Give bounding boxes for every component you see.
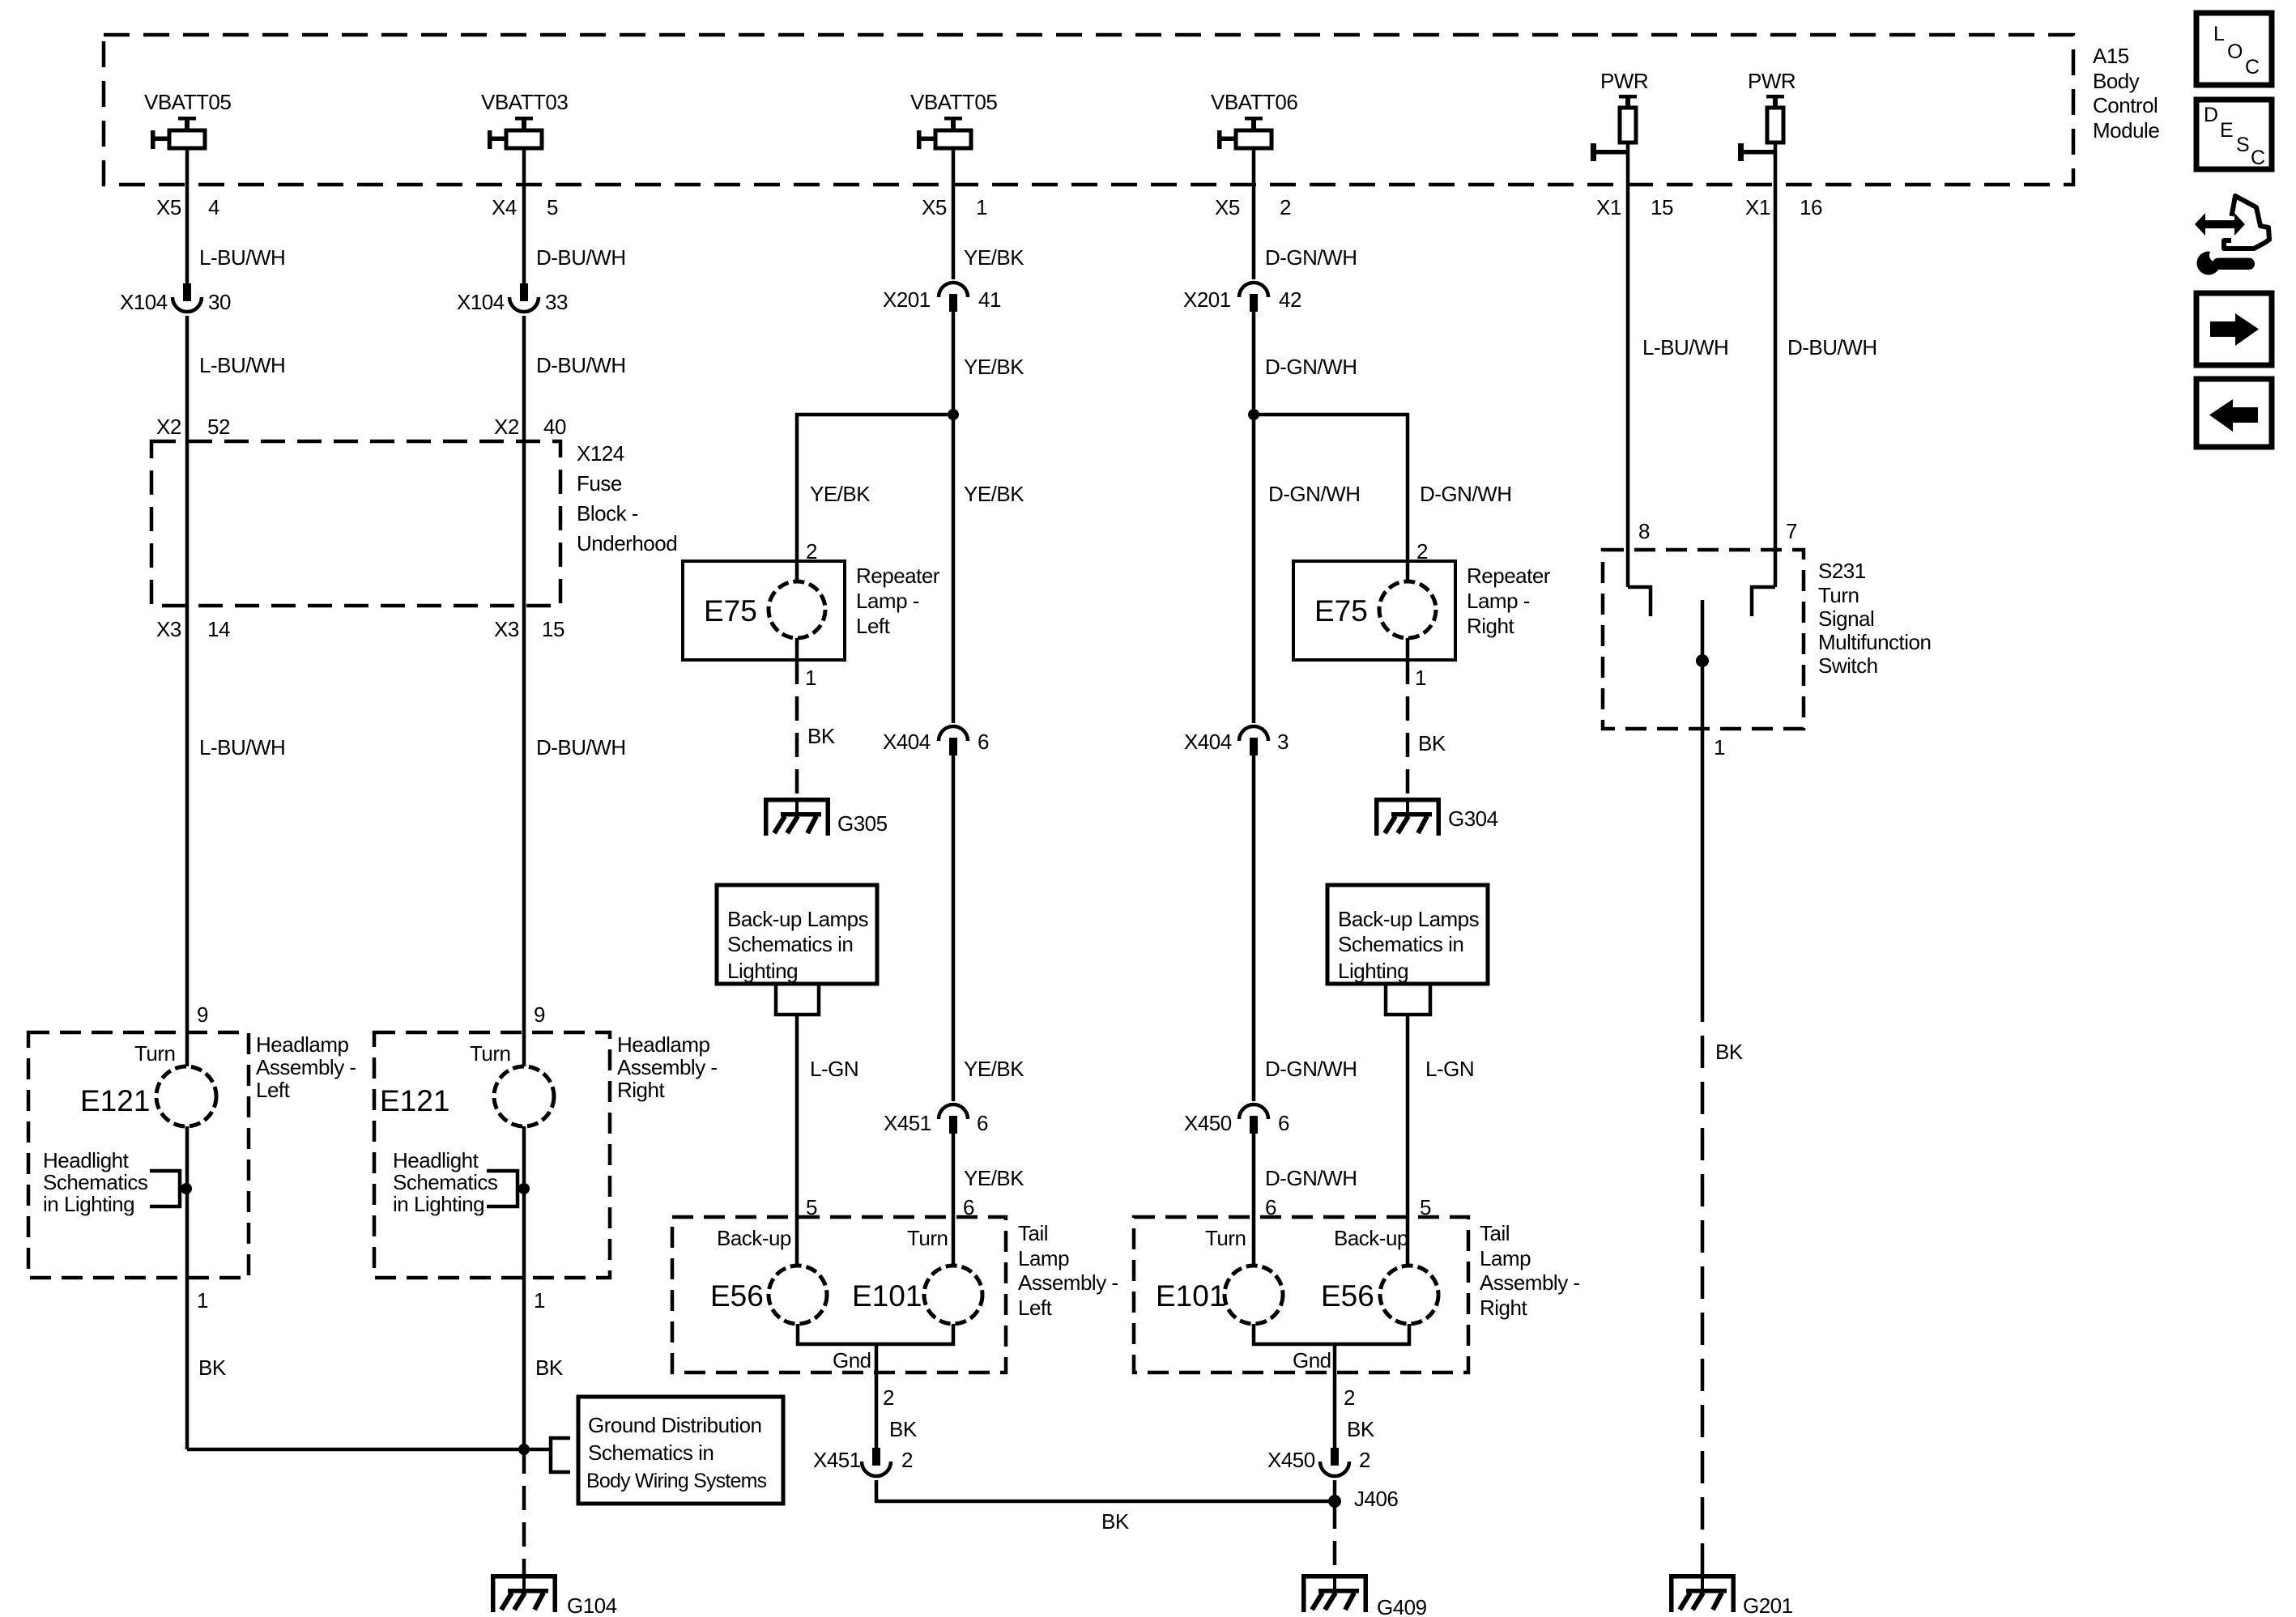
fuse VBATT03 xyxy=(481,90,568,149)
svg-text:G201: G201 xyxy=(1743,1594,1793,1617)
wire col2 X3 to E121 right xyxy=(522,606,526,1066)
svg-text:Underhood: Underhood xyxy=(577,531,677,555)
svg-text:Lighting: Lighting xyxy=(1338,959,1408,983)
wire col4 X404 to X450 xyxy=(1252,755,1256,1101)
svg-text:X104: X104 xyxy=(120,290,168,314)
svg-text:Right: Right xyxy=(1480,1296,1527,1320)
svg-text:YE/BK: YE/BK xyxy=(964,1166,1024,1190)
svg-text:Headlamp: Headlamp xyxy=(617,1032,710,1057)
svg-text:J406: J406 xyxy=(1354,1487,1398,1511)
wire col1 X104 to X2 xyxy=(185,316,190,441)
svg-text:D-BU/WH: D-BU/WH xyxy=(536,353,626,377)
svg-text:Switch: Switch xyxy=(1818,653,1878,678)
svg-text:4: 4 xyxy=(208,195,219,219)
svg-text:Body: Body xyxy=(2093,69,2140,93)
svg-text:Fuse: Fuse xyxy=(577,471,622,496)
svg-text:D: D xyxy=(2204,104,2218,126)
lamp E56 left (dashed circle) xyxy=(710,1266,827,1324)
svg-text:X450: X450 xyxy=(1184,1111,1232,1135)
svg-text:YE/BK: YE/BK xyxy=(964,355,1024,379)
svg-text:Back-up: Back-up xyxy=(1334,1226,1408,1250)
svg-text:YE/BK: YE/BK xyxy=(810,482,871,506)
svg-text:5: 5 xyxy=(547,195,558,219)
wire gnd join (right tail lamp) xyxy=(1254,1324,1409,1344)
fuse block X124 (dashed box) xyxy=(151,441,560,606)
wire col2 through E121 right xyxy=(522,1126,526,1449)
svg-text:G305: G305 xyxy=(837,811,888,836)
svg-text:E101: E101 xyxy=(852,1279,922,1313)
svg-text:D-GN/WH: D-GN/WH xyxy=(1268,482,1360,506)
svg-text:9: 9 xyxy=(534,1002,545,1027)
wire col3 fuse to X201 xyxy=(952,148,956,279)
wire left gnd to BK run xyxy=(876,1480,1335,1501)
icon arrow left box xyxy=(2196,379,2272,447)
svg-text:Control: Control xyxy=(2093,93,2158,117)
svg-text:X5: X5 xyxy=(156,195,181,219)
svg-text:41: 41 xyxy=(978,287,1001,312)
svg-text:X5: X5 xyxy=(922,195,947,219)
svg-text:BK: BK xyxy=(1101,1509,1130,1534)
svg-text:X124: X124 xyxy=(577,441,624,466)
wire col3 X201 to junction xyxy=(952,312,956,415)
svg-text:Lighting: Lighting xyxy=(727,959,798,983)
svg-text:X451: X451 xyxy=(813,1448,861,1472)
svg-text:L-BU/WH: L-BU/WH xyxy=(199,245,285,270)
svg-text:E56: E56 xyxy=(1321,1279,1374,1313)
svg-text:E101: E101 xyxy=(1156,1279,1225,1313)
svg-text:30: 30 xyxy=(208,290,231,314)
wire BK horizontal joining col2 xyxy=(187,1448,549,1452)
fuse VBATT05 (center) xyxy=(910,90,997,149)
box Back-up Lamps Schematics in Lighting (left) xyxy=(717,885,877,984)
svg-text:Left: Left xyxy=(856,614,891,638)
ground G305 xyxy=(764,798,888,836)
lamp E101 left (dashed circle) xyxy=(852,1266,982,1324)
wire col4 junction to X404 xyxy=(1252,415,1256,723)
svg-text:Repeater: Repeater xyxy=(856,564,940,588)
wire X450 to J406 xyxy=(1333,1480,1337,1501)
bracket below back-up lamps box (right) xyxy=(1386,985,1430,1015)
svg-text:PWR: PWR xyxy=(1748,69,1795,93)
node headlight tap (right) xyxy=(518,1183,530,1194)
icon vehicle with arrow xyxy=(2195,196,2269,249)
wire col4 fuse to X201 xyxy=(1252,148,1256,279)
svg-text:Schematics: Schematics xyxy=(393,1170,498,1194)
svg-text:Module: Module xyxy=(2093,118,2159,143)
wire L-GN branch to E56 left xyxy=(795,1015,799,1266)
label Tail Lamp Assembly - Left xyxy=(1018,1221,1118,1320)
svg-text:X4: X4 xyxy=(492,195,517,219)
svg-text:Back-up: Back-up xyxy=(717,1226,791,1250)
svg-text:X5: X5 xyxy=(1215,195,1240,219)
box Ground Distribution Schematics in Body Wiring Systems xyxy=(578,1397,783,1504)
svg-text:E75: E75 xyxy=(704,594,757,628)
svg-text:L-GN: L-GN xyxy=(1425,1057,1474,1081)
component Tail Lamp Assembly - Right (dashed box) xyxy=(1134,1217,1468,1372)
svg-text:Turn: Turn xyxy=(134,1041,176,1066)
svg-text:Schematics in: Schematics in xyxy=(1338,932,1463,956)
svg-text:X1: X1 xyxy=(1745,195,1770,219)
pin X4 5 xyxy=(492,195,558,219)
bracket to headlight schematics (left) xyxy=(150,1171,186,1206)
svg-text:in Lighting: in Lighting xyxy=(43,1192,134,1216)
wire BK dashed S231 to G201 xyxy=(1701,989,1705,1574)
svg-text:7: 7 xyxy=(1786,519,1797,543)
svg-text:Repeater: Repeater xyxy=(1467,564,1551,588)
wire col1 X3 to E121 left xyxy=(185,606,190,1066)
component E75 Repeater Lamp - Left (box) xyxy=(683,561,845,660)
svg-text:1: 1 xyxy=(1714,735,1725,760)
svg-text:Left: Left xyxy=(1018,1296,1053,1320)
connector X451 2 xyxy=(813,1448,913,1476)
wire col1 through fuse block xyxy=(185,441,190,606)
svg-text:Schematics: Schematics xyxy=(43,1170,148,1194)
svg-text:1: 1 xyxy=(976,195,987,219)
svg-text:YE/BK: YE/BK xyxy=(964,245,1024,270)
svg-text:L-BU/WH: L-BU/WH xyxy=(199,353,285,377)
svg-text:BK: BK xyxy=(1418,731,1446,755)
svg-text:X201: X201 xyxy=(1183,287,1231,312)
wire col2 through fuse block xyxy=(522,441,526,606)
svg-text:X404: X404 xyxy=(1184,730,1232,754)
connector X104 30 xyxy=(120,283,231,314)
lamp E101 right (dashed circle) xyxy=(1156,1266,1283,1324)
svg-text:Assembly -: Assembly - xyxy=(256,1055,356,1079)
svg-text:E56: E56 xyxy=(710,1279,764,1313)
svg-text:G104: G104 xyxy=(567,1594,617,1617)
svg-text:Lamp -: Lamp - xyxy=(856,589,919,613)
svg-text:2: 2 xyxy=(1280,195,1291,219)
wire col3 X404 to X451 xyxy=(952,755,956,1101)
wire L-GN branch to E56 right xyxy=(1406,1015,1410,1266)
fuse VBATT06 xyxy=(1211,90,1297,149)
svg-text:9: 9 xyxy=(197,1002,208,1027)
svg-text:Headlamp: Headlamp xyxy=(256,1032,349,1057)
wire col2 fuse to X104 xyxy=(522,148,526,283)
svg-text:Back-up Lamps: Back-up Lamps xyxy=(727,907,869,931)
pin X1 16 xyxy=(1745,195,1822,219)
svg-text:Right: Right xyxy=(617,1078,665,1102)
svg-text:16: 16 xyxy=(1800,195,1822,219)
component E121 Headlamp Assembly - Left (dashed box) xyxy=(28,1032,249,1278)
svg-text:Lamp: Lamp xyxy=(1018,1246,1069,1270)
connector X451 6 xyxy=(884,1104,988,1135)
label Headlight Schematics in Lighting (left) xyxy=(43,1148,148,1216)
pin X5 1 xyxy=(922,195,987,219)
svg-text:C: C xyxy=(2245,56,2260,79)
lamp E75 right (dashed circle) xyxy=(1314,561,1436,660)
node ground junction left xyxy=(518,1444,530,1455)
pin X3 15 xyxy=(494,617,564,641)
node headlight tap (left) xyxy=(181,1183,192,1194)
pin X2 40 xyxy=(494,415,566,439)
svg-text:D-GN/WH: D-GN/WH xyxy=(1265,1057,1357,1081)
svg-text:D-GN/WH: D-GN/WH xyxy=(1265,355,1357,379)
node J406 xyxy=(1328,1487,1398,1511)
svg-text:YE/BK: YE/BK xyxy=(964,482,1024,506)
icon DESC box xyxy=(2196,100,2272,169)
svg-text:S231: S231 xyxy=(1818,559,1866,583)
fuse PWR (left) xyxy=(1591,69,1648,161)
svg-text:G409: G409 xyxy=(1377,1595,1427,1617)
wire col2 X104 to X2 xyxy=(522,316,526,441)
svg-text:Tail: Tail xyxy=(1480,1221,1510,1245)
label Headlamp Assembly - Left xyxy=(256,1032,356,1102)
connector X450 2 xyxy=(1267,1448,1370,1476)
svg-text:Assembly -: Assembly - xyxy=(1018,1270,1118,1295)
svg-text:1: 1 xyxy=(534,1288,545,1313)
svg-text:2: 2 xyxy=(883,1385,894,1410)
svg-text:Gnd: Gnd xyxy=(1293,1348,1331,1372)
svg-text:Ground Distribution: Ground Distribution xyxy=(588,1413,762,1437)
svg-text:6: 6 xyxy=(977,1111,988,1135)
svg-text:L-BU/WH: L-BU/WH xyxy=(1642,335,1728,360)
svg-text:D-BU/WH: D-BU/WH xyxy=(536,735,626,760)
svg-text:1: 1 xyxy=(805,666,816,690)
connector X404 6 xyxy=(883,726,989,755)
svg-text:S: S xyxy=(2236,134,2250,156)
svg-text:BK: BK xyxy=(807,724,836,748)
wire col4 X450 to tail lamp xyxy=(1252,1134,1256,1266)
pin X2 52 xyxy=(156,415,230,439)
svg-text:1: 1 xyxy=(1415,666,1426,690)
svg-text:VBATT03: VBATT03 xyxy=(481,90,568,114)
svg-text:O: O xyxy=(2227,40,2243,63)
svg-text:X2: X2 xyxy=(156,415,181,439)
component S231 Turn Signal Multifunction Switch (dashed box) xyxy=(1603,550,1804,729)
bracket below back-up lamps box (left) xyxy=(776,985,819,1015)
svg-text:Tail: Tail xyxy=(1018,1221,1048,1245)
switch contact pin 8 xyxy=(1628,587,1651,616)
svg-text:Lamp -: Lamp - xyxy=(1467,589,1530,613)
wire col3 X451 to tail lamp xyxy=(952,1134,956,1266)
wire col1 fuse to X104 xyxy=(185,148,190,283)
svg-text:Left: Left xyxy=(256,1078,291,1102)
label A15 Body Control Module xyxy=(2093,44,2159,143)
connector X201 41 xyxy=(883,283,1001,312)
svg-text:Turn: Turn xyxy=(1205,1226,1246,1250)
switch contact pin 7 xyxy=(1752,587,1775,616)
svg-text:BK: BK xyxy=(889,1417,918,1441)
label Repeater Lamp - Left xyxy=(856,564,940,638)
bracket to headlight schematics (right) xyxy=(487,1171,524,1206)
svg-text:X2: X2 xyxy=(494,415,519,439)
svg-text:Assembly -: Assembly - xyxy=(617,1055,718,1079)
wire BK dashed E75 left to G305 xyxy=(795,660,799,798)
svg-text:Right: Right xyxy=(1467,614,1514,638)
icon arrow right box xyxy=(2196,293,2272,365)
svg-text:Back-up Lamps: Back-up Lamps xyxy=(1338,907,1480,931)
svg-text:X1: X1 xyxy=(1596,195,1621,219)
label Tail Lamp Assembly - Right xyxy=(1480,1221,1580,1320)
svg-text:2: 2 xyxy=(901,1448,913,1472)
svg-text:15: 15 xyxy=(542,617,564,641)
svg-text:6: 6 xyxy=(1278,1111,1289,1135)
svg-text:X3: X3 xyxy=(494,617,519,641)
wire col6 fuse to S231 pin 7 xyxy=(1774,143,1778,587)
svg-text:Turn: Turn xyxy=(907,1226,948,1250)
svg-text:D-GN/WH: D-GN/WH xyxy=(1265,1166,1357,1190)
svg-text:6: 6 xyxy=(978,730,989,754)
svg-text:Assembly -: Assembly - xyxy=(1480,1270,1580,1295)
pin X3 14 xyxy=(156,617,230,641)
svg-text:40: 40 xyxy=(543,415,566,439)
svg-text:E: E xyxy=(2220,119,2234,142)
svg-text:8: 8 xyxy=(1638,519,1650,543)
svg-text:L-BU/WH: L-BU/WH xyxy=(199,735,285,760)
wire branch to repeater lamp right xyxy=(1254,415,1408,561)
lamp E56 right (dashed circle) xyxy=(1321,1266,1438,1324)
connector X201 42 xyxy=(1183,283,1301,312)
wire gnd down (right tail lamp) xyxy=(1333,1344,1337,1448)
svg-text:X201: X201 xyxy=(883,287,931,312)
bracket to ground distribution box xyxy=(551,1438,570,1472)
svg-text:33: 33 xyxy=(545,290,568,314)
svg-text:Signal: Signal xyxy=(1818,606,1874,631)
svg-text:X450: X450 xyxy=(1267,1448,1315,1472)
svg-text:L: L xyxy=(2213,23,2225,45)
svg-text:Turn: Turn xyxy=(1818,583,1859,607)
svg-text:15: 15 xyxy=(1651,195,1673,219)
svg-text:BK: BK xyxy=(535,1355,564,1380)
svg-text:2: 2 xyxy=(1344,1385,1355,1410)
label Repeater Lamp - Right xyxy=(1467,564,1551,638)
svg-text:Gnd: Gnd xyxy=(833,1348,871,1372)
wire gnd down (left tail lamp) xyxy=(875,1344,879,1448)
pin X1 15 xyxy=(1596,195,1673,219)
svg-text:VBATT05: VBATT05 xyxy=(910,90,997,114)
svg-text:Body Wiring Systems: Body Wiring Systems xyxy=(586,1470,767,1492)
svg-text:D-BU/WH: D-BU/WH xyxy=(1787,335,1877,360)
label S231 Turn Signal Multifunction Switch xyxy=(1818,559,1931,678)
label X124 Fuse Block - Underhood xyxy=(577,441,677,555)
lamp E121 right (dashed circle) xyxy=(380,1066,554,1126)
wire col4 X201 to junction xyxy=(1252,312,1256,415)
svg-text:BK: BK xyxy=(198,1355,227,1380)
icon wrench xyxy=(2197,248,2256,275)
component E121 Headlamp Assembly - Right (dashed box) xyxy=(374,1032,610,1278)
svg-text:VBATT06: VBATT06 xyxy=(1211,90,1297,114)
svg-text:E75: E75 xyxy=(1314,594,1368,628)
box Back-up Lamps Schematics in Lighting (right) xyxy=(1327,885,1488,984)
svg-text:in Lighting: in Lighting xyxy=(393,1192,484,1216)
svg-text:YE/BK: YE/BK xyxy=(964,1057,1024,1081)
svg-text:E121: E121 xyxy=(80,1084,150,1117)
lamp E121 left (dashed circle) xyxy=(80,1066,216,1126)
svg-text:X404: X404 xyxy=(883,730,931,754)
pin X5 2 xyxy=(1215,195,1291,219)
svg-text:X451: X451 xyxy=(884,1111,931,1135)
svg-text:Block -: Block - xyxy=(577,501,638,526)
fuse PWR (right) xyxy=(1738,69,1795,161)
svg-text:L-GN: L-GN xyxy=(810,1057,858,1081)
svg-text:Headlight: Headlight xyxy=(393,1148,479,1172)
svg-text:D-GN/WH: D-GN/WH xyxy=(1265,245,1357,270)
svg-text:Schematics in: Schematics in xyxy=(588,1440,714,1465)
svg-text:Schematics in: Schematics in xyxy=(727,932,853,956)
pin X5 4 xyxy=(156,195,219,219)
component Tail Lamp Assembly - Left (dashed box) xyxy=(672,1217,1006,1372)
svg-text:E121: E121 xyxy=(380,1084,449,1117)
svg-text:D-BU/WH: D-BU/WH xyxy=(536,245,626,270)
svg-text:G304: G304 xyxy=(1448,806,1498,831)
svg-text:42: 42 xyxy=(1279,287,1301,312)
label Headlight Schematics in Lighting (right) xyxy=(393,1148,498,1216)
wire BK dashed J406 to G409 xyxy=(1333,1504,1337,1574)
lamp E75 left (dashed circle) xyxy=(704,561,825,660)
wire BK dashed E75 right to G304 xyxy=(1406,660,1410,798)
wire BK dashed to G104 xyxy=(522,1449,526,1574)
svg-text:A15: A15 xyxy=(2093,44,2129,68)
svg-text:2: 2 xyxy=(1359,1448,1370,1472)
svg-text:BK: BK xyxy=(1347,1417,1375,1441)
icon LOC box xyxy=(2196,13,2272,85)
wire col5 fuse to S231 pin 8 xyxy=(1626,143,1630,587)
svg-text:VBATT05: VBATT05 xyxy=(144,90,231,114)
component E75 Repeater Lamp - Right (box) xyxy=(1293,561,1455,660)
ground G304 xyxy=(1374,798,1498,836)
svg-text:3: 3 xyxy=(1277,730,1289,754)
connector X404 3 xyxy=(1184,726,1289,755)
svg-text:X3: X3 xyxy=(156,617,181,641)
svg-text:X104: X104 xyxy=(457,290,505,314)
ground G104 xyxy=(491,1574,617,1617)
svg-text:Lamp: Lamp xyxy=(1480,1246,1531,1270)
svg-text:D-GN/WH: D-GN/WH xyxy=(1420,482,1511,506)
wire col3 junction to X404 xyxy=(952,415,956,723)
node switch pole xyxy=(1696,654,1709,667)
ground G201 xyxy=(1669,1574,1793,1617)
svg-text:Multifunction: Multifunction xyxy=(1818,630,1931,654)
connector X450 6 xyxy=(1184,1104,1289,1135)
fuse VBATT05 (left) xyxy=(144,90,231,149)
svg-text:Headlight: Headlight xyxy=(43,1148,130,1172)
svg-text:PWR: PWR xyxy=(1600,69,1648,93)
node branch junction left xyxy=(948,409,959,420)
connector X104 33 xyxy=(457,283,568,314)
wire col1 through E121 left xyxy=(185,1126,190,1278)
switch pole wire xyxy=(1701,600,1705,989)
module A15 Body Control Module (dashed box) xyxy=(104,35,2073,185)
svg-text:52: 52 xyxy=(207,415,230,439)
label Headlamp Assembly - Right xyxy=(617,1032,718,1102)
wire col1 E121 to ground run xyxy=(185,1278,190,1449)
wire branch to repeater lamp left xyxy=(797,415,953,561)
wire gnd join (left tail lamp) xyxy=(798,1324,953,1344)
svg-text:C: C xyxy=(2251,147,2265,169)
svg-text:BK: BK xyxy=(1715,1040,1744,1064)
svg-text:1: 1 xyxy=(197,1288,208,1313)
svg-text:Turn: Turn xyxy=(470,1041,511,1066)
ground G409 xyxy=(1301,1574,1427,1617)
node branch junction right xyxy=(1248,409,1259,420)
svg-text:14: 14 xyxy=(207,617,230,641)
